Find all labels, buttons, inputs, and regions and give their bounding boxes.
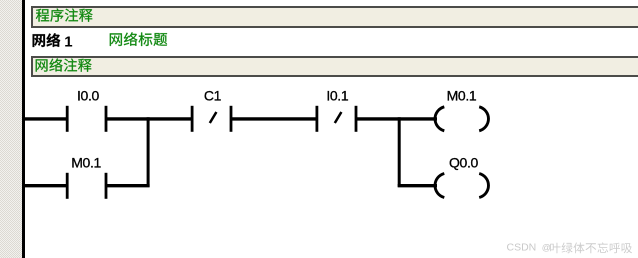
junction vertical for branch Q0.0: [398, 117, 401, 187]
contact M0.1 (parallel): [67, 173, 106, 199]
wire rung1 I0.1 to coil M0.1: [357, 117, 437, 120]
coil M0.1: [435, 107, 488, 131]
wire rung2 M0.1 to junction: [107, 184, 150, 187]
svg-text:I0.1: I0.1: [326, 88, 349, 104]
junction vertical for parallel branch M0.1: [147, 117, 150, 187]
wire rung1 C1 to I0.1: [232, 117, 317, 120]
watermark CJK 叶绿体不忘呼吸: [549, 242, 635, 255]
program comment text 程序注释: [35, 8, 95, 25]
svg-text:M0.1: M0.1: [447, 88, 477, 104]
svg-text:C1: C1: [204, 88, 222, 104]
left margin dithered strip: [0, 0, 22, 258]
coil Q0.0: [435, 174, 488, 198]
svg-text:I0.0: I0.0: [77, 88, 100, 104]
wire rung1 I0.0 to C1: [107, 117, 192, 120]
left power rail: [22, 0, 25, 258]
contact I0.0: [67, 106, 106, 132]
network comment box: [31, 56, 638, 78]
network comment text 网络注释: [34, 58, 94, 75]
network title text 网络标题: [108, 32, 168, 49]
wire rung2 rail to contact M0.1: [22, 184, 67, 187]
contact C1 (NC): [192, 106, 231, 132]
wire branch to coil Q0.0: [398, 184, 437, 187]
svg-text:1: 1: [64, 34, 72, 51]
network number label 网络 (bold): [31, 33, 63, 50]
svg-text:Q0.0: Q0.0: [449, 155, 479, 171]
svg-text:M0.1: M0.1: [71, 155, 101, 171]
program comment box: [31, 6, 638, 28]
wire rung1 rail to I0.0: [22, 117, 67, 120]
svg-text:CSDN: CSDN: [507, 242, 537, 254]
contact I0.1 (NC): [317, 106, 356, 132]
